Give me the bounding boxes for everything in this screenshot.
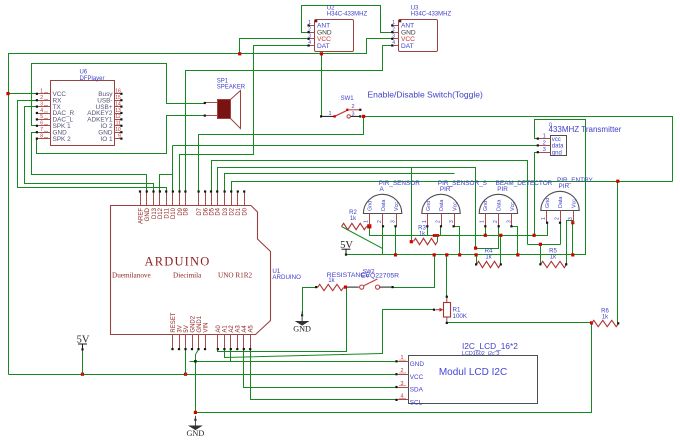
wire D5 to PIR_ENTRY data column bbox=[212, 161, 528, 245]
svg-text:1k: 1k bbox=[550, 254, 557, 260]
RF transmitter 433MHZ bbox=[538, 122, 622, 156]
svg-text:A4: A4 bbox=[242, 325, 248, 333]
PIR_SENSOR A Vcc endpoint bbox=[394, 225, 396, 227]
wire RESISTANCE left lead to GND bbox=[303, 288, 317, 316]
label R3 bbox=[418, 226, 426, 238]
resistor R6 1k bbox=[592, 320, 619, 326]
U6 left pin 4 endpoint bbox=[36, 112, 38, 114]
wire PIR 5V rail bbox=[347, 120, 586, 255]
svg-text:D0: D0 bbox=[243, 207, 249, 215]
svg-text:A0: A0 bbox=[216, 325, 222, 333]
microcontroller U1 ARDUINO bbox=[111, 192, 302, 350]
SP1 pin + endpoint bbox=[204, 102, 206, 104]
supply 5V symbol (PIR rail) bbox=[340, 240, 353, 256]
wire R2 right lead bbox=[367, 226, 370, 228]
svg-text:1: 1 bbox=[541, 217, 547, 220]
svg-text:PIR˜: PIR˜ bbox=[440, 186, 454, 193]
wire U2.VCC riser from 5V bus bbox=[240, 39, 309, 54]
svg-text:Gnd: Gnd bbox=[483, 201, 489, 211]
svg-text:PIR: PIR bbox=[497, 186, 508, 193]
junction GND1 on LCD GND line bbox=[194, 360, 197, 363]
svg-text:DFPlayer: DFPlayer bbox=[80, 76, 105, 82]
svg-text:D3: D3 bbox=[223, 207, 229, 215]
svg-text:2: 2 bbox=[377, 220, 383, 223]
wire U6.TX to D13 bbox=[25, 107, 154, 192]
R5 right endpoint bbox=[565, 263, 567, 265]
Arduino top pin AREF endpoint bbox=[139, 190, 141, 192]
junction BEAM_DETECTOR vcc on 5V rail bbox=[516, 253, 519, 256]
svg-text:GND: GND bbox=[293, 325, 311, 334]
Arduino bottom pin A2 endpoint bbox=[230, 348, 232, 350]
Arduino top pin D12 endpoint bbox=[159, 190, 161, 192]
svg-text:D4: D4 bbox=[216, 207, 222, 215]
LCD pin 3 endpoint bbox=[395, 386, 397, 388]
svg-text:GND2: GND2 bbox=[190, 315, 196, 332]
svg-text:Vcc: Vcc bbox=[510, 202, 516, 211]
junction Arduino 5V pin on bottom rail bbox=[184, 373, 187, 376]
BEAM_DETECTOR Gnd endpoint bbox=[484, 225, 486, 227]
potentiometer R1 100K bbox=[436, 297, 468, 323]
U6 left pin 1 endpoint bbox=[36, 93, 38, 95]
junction PIR_SENSOR_S vcc on 5V rail bbox=[458, 253, 461, 256]
resistor R5 1k bbox=[541, 261, 567, 267]
junction PIR_ENTRY vcc pin bbox=[571, 221, 574, 224]
junction PIR_SENSOR_A gnd / R2 bbox=[367, 224, 371, 228]
PIR_ENTRY Data endpoint bbox=[559, 222, 561, 224]
svg-text:U6: U6 bbox=[80, 70, 88, 76]
wire SW1 pin1 riser from 5V bus bbox=[321, 54, 323, 117]
R5 left endpoint bbox=[539, 263, 541, 265]
wire right-side drop to R6 bbox=[617, 182, 619, 324]
svg-text:Gnd: Gnd bbox=[545, 198, 551, 208]
Arduino top pin D2 endpoint bbox=[230, 190, 232, 192]
U2 pin 2 endpoint bbox=[308, 31, 310, 33]
wire D10 drop bbox=[172, 146, 174, 192]
junction R4 left on 5V rail bbox=[475, 253, 478, 256]
svg-text:3: 3 bbox=[352, 111, 355, 117]
label R6 bbox=[601, 309, 609, 321]
U6 left pin 6 endpoint bbox=[36, 125, 38, 127]
svg-text:ARDUINO: ARDUINO bbox=[272, 274, 301, 281]
speaker SP1 bbox=[205, 78, 246, 128]
U6 right pin 13 endpoint bbox=[120, 112, 122, 114]
junction BEAM_DETECTOR gnd on rail bbox=[484, 234, 487, 237]
wire D12 jog from D10 drop bbox=[160, 175, 173, 192]
wire PIR_SENSOR_A data drop bbox=[382, 227, 384, 249]
svg-text:1k: 1k bbox=[485, 254, 492, 260]
wire 5V bus top from U6.VCC riser to U3 area bbox=[9, 39, 393, 375]
PIR sensor PIR_SENSOR_S bbox=[422, 180, 487, 226]
label R4 bbox=[485, 249, 493, 261]
SW1 pin2 endpoint bbox=[359, 109, 361, 111]
junction D2 run at R6 drop bbox=[616, 180, 619, 183]
svg-text:16: 16 bbox=[115, 89, 121, 95]
svg-text:13: 13 bbox=[115, 108, 121, 114]
svg-text:1k: 1k bbox=[419, 231, 426, 237]
SW1 pin1 endpoint bbox=[320, 115, 322, 117]
junction R3 left bbox=[410, 240, 413, 243]
wire U6.SPK1 to speaker top bbox=[32, 64, 205, 126]
Arduino bottom pin A5 endpoint bbox=[249, 348, 251, 350]
PIR sensor PIR_SENSOR A bbox=[363, 180, 420, 226]
svg-text:Vcc: Vcc bbox=[572, 199, 578, 208]
svg-text:2: 2 bbox=[352, 104, 355, 110]
U3 pin 2 endpoint bbox=[391, 31, 393, 33]
U6 right pin 16 endpoint bbox=[120, 93, 122, 95]
wire PIR_ENTRY data drop bbox=[560, 223, 562, 245]
wire BEAM_DETECTOR vcc jog bbox=[512, 227, 518, 255]
svg-text:Duemilanove: Duemilanove bbox=[112, 272, 151, 280]
svg-text:SCL: SCL bbox=[410, 400, 423, 407]
wire R4 left riser bbox=[476, 255, 478, 265]
svg-text:ARDUINO: ARDUINO bbox=[144, 254, 210, 268]
svg-text:A3: A3 bbox=[236, 325, 242, 333]
junction R1 feed on 5V rail bbox=[445, 253, 448, 256]
junction SW2 loop on 5V rail bbox=[433, 253, 436, 256]
Arduino bottom pin GND1 endpoint bbox=[197, 348, 199, 350]
svg-text:H34C-433MHZ: H34C-433MHZ bbox=[327, 11, 368, 17]
svg-text:433MHZ Transmitter: 433MHZ Transmitter bbox=[549, 125, 622, 134]
wire R5 right riser to PIR_ENTRY vcc bbox=[567, 221, 573, 265]
svg-text:6: 6 bbox=[40, 121, 43, 127]
U6 left pin 2 endpoint bbox=[36, 99, 38, 101]
svg-text:vcc: vcc bbox=[552, 137, 561, 143]
svg-text:5: 5 bbox=[40, 114, 43, 120]
resistor R4 1k bbox=[477, 261, 501, 267]
svg-text:3V: 3V bbox=[177, 325, 183, 332]
Arduino top pin D11 endpoint bbox=[165, 190, 167, 192]
svg-text:1k: 1k bbox=[328, 278, 335, 284]
U6 right pin 12 endpoint bbox=[120, 118, 122, 120]
resistor RESISTANCE 1k bbox=[318, 284, 344, 290]
Arduino top pin D8 endpoint bbox=[184, 190, 186, 192]
svg-text:1: 1 bbox=[329, 111, 332, 117]
svg-text:PIR_SENSOR: PIR_SENSOR bbox=[379, 180, 421, 187]
svg-text:1: 1 bbox=[401, 355, 404, 361]
svg-text:2: 2 bbox=[401, 368, 404, 374]
svg-text:1k: 1k bbox=[350, 216, 357, 222]
svg-text:2: 2 bbox=[543, 140, 546, 146]
svg-text:Enable/Disable Switch(Toggle): Enable/Disable Switch(Toggle) bbox=[368, 90, 483, 100]
Arduino top pin D4 endpoint bbox=[216, 190, 218, 192]
svg-text:I2C_LCD_16*2: I2C_LCD_16*2 bbox=[462, 341, 518, 351]
wire D2 long run to right side bbox=[232, 182, 673, 192]
RF module U2 H34C-433MHZ bbox=[308, 5, 367, 51]
Arduino top pin GND endpoint bbox=[146, 190, 148, 192]
Arduino bottom pin A1 endpoint bbox=[223, 348, 225, 350]
SW2 right endpoint bbox=[392, 286, 394, 288]
svg-text:100K: 100K bbox=[453, 313, 468, 320]
wire D9 link bbox=[180, 154, 254, 156]
wire Arduino 5V pin drop bbox=[185, 350, 187, 375]
svg-text:2: 2 bbox=[555, 217, 561, 220]
Arduino top pin D10 endpoint bbox=[172, 190, 174, 192]
svg-text:VIN: VIN bbox=[203, 323, 209, 333]
U3 pin 3 endpoint bbox=[391, 38, 393, 40]
BEAM_DETECTOR Data endpoint bbox=[498, 225, 500, 227]
svg-text:Vcc: Vcc bbox=[394, 202, 400, 211]
svg-text:Gnd: Gnd bbox=[367, 201, 373, 211]
U6 left pin 3 endpoint bbox=[36, 106, 38, 108]
wire GND1 to bottom gnd run bbox=[196, 350, 199, 413]
svg-text:UNO R1R2: UNO R1R2 bbox=[218, 272, 253, 280]
wire R3 left riser from D4 column bbox=[411, 168, 413, 242]
R1 wiper endpoint bbox=[433, 309, 435, 311]
svg-text:7: 7 bbox=[40, 127, 43, 133]
switch SW2 EVQ22705R bbox=[347, 269, 399, 289]
svg-text:DAT: DAT bbox=[401, 43, 414, 50]
Arduino top pin D9 endpoint bbox=[178, 190, 180, 192]
wire U6.RX to D11 bbox=[18, 101, 167, 192]
junction D4 data corner bbox=[474, 247, 477, 250]
svg-text:D12: D12 bbox=[158, 207, 164, 219]
svg-text:DAT: DAT bbox=[317, 43, 330, 50]
Arduino bottom pin RESET endpoint bbox=[171, 348, 173, 350]
svg-text:data: data bbox=[552, 144, 564, 150]
svg-text:EVQ22705R: EVQ22705R bbox=[361, 272, 399, 279]
ground GND symbol (bottom) bbox=[187, 416, 205, 438]
svg-text:8: 8 bbox=[40, 133, 43, 139]
junction U6.VCC on 5V riser bbox=[6, 92, 9, 95]
U6 right pin 10 endpoint bbox=[120, 131, 122, 133]
wire LCD GND line bbox=[190, 361, 397, 363]
BEAM_DETECTOR Vcc endpoint bbox=[510, 225, 512, 227]
svg-text:GND1: GND1 bbox=[197, 315, 203, 332]
LCD pin 1 endpoint bbox=[395, 360, 397, 362]
svg-text:SW1: SW1 bbox=[341, 96, 355, 102]
U6 left pin 7 endpoint bbox=[36, 131, 38, 133]
svg-text:A2: A2 bbox=[229, 325, 235, 333]
svg-text:D10: D10 bbox=[171, 207, 177, 219]
wire PIR_SENSOR_S data drop to rail bbox=[440, 227, 442, 236]
junction transmitter gnd on rail bbox=[533, 234, 536, 237]
U6 left pin 8 endpoint bbox=[36, 138, 38, 140]
svg-text:D1: D1 bbox=[236, 207, 242, 215]
svg-text:4: 4 bbox=[401, 394, 404, 400]
svg-text:D8: D8 bbox=[184, 207, 190, 215]
SW1 pin3 endpoint bbox=[359, 115, 361, 117]
SP1 pin - endpoint bbox=[204, 115, 206, 117]
svg-text:PIR: PIR bbox=[559, 183, 570, 190]
svg-text:12: 12 bbox=[115, 114, 121, 120]
PIR sensor BEAM_DETECTOR bbox=[479, 180, 552, 226]
label R2 bbox=[349, 210, 357, 222]
svg-text:3: 3 bbox=[543, 147, 546, 153]
svg-text:2: 2 bbox=[493, 220, 499, 223]
wire U6.SPK2 to speaker bottom bbox=[37, 116, 205, 154]
R6 right endpoint bbox=[617, 322, 619, 324]
Arduino bottom pin A0 endpoint bbox=[217, 348, 219, 350]
resistor R2 1k bbox=[342, 223, 367, 229]
svg-text:SPK 2: SPK 2 bbox=[53, 136, 72, 143]
svg-text:gnd: gnd bbox=[552, 150, 562, 156]
RF module U3 H34C-433MHZ bbox=[392, 5, 451, 51]
U6 right pin 15 endpoint bbox=[120, 99, 122, 101]
svg-text:D11: D11 bbox=[165, 207, 171, 218]
wire A5 to LCD SCL bbox=[251, 350, 397, 400]
wire A4 to LCD SDA bbox=[244, 350, 397, 388]
junction R1 bottom / R6 left bbox=[590, 321, 593, 324]
wire PIR_SENSOR_S gnd drop bbox=[427, 227, 429, 236]
wire bottom gnd run to R6 drop bbox=[196, 323, 592, 413]
wire SW2 output loop to 5V rail bbox=[393, 255, 435, 288]
wire D3 dangling run bbox=[225, 174, 455, 192]
svg-text:2: 2 bbox=[40, 95, 43, 101]
U2 pin 4 endpoint bbox=[308, 44, 310, 46]
wire R3 right end riser bbox=[437, 236, 439, 242]
LCD pin 4 endpoint bbox=[395, 399, 397, 401]
U3 pin 1 endpoint bbox=[391, 24, 393, 26]
transmitter gnd endpoint bbox=[537, 151, 539, 153]
svg-text:A: A bbox=[380, 186, 385, 193]
svg-text:A1: A1 bbox=[223, 325, 229, 333]
PIR_ENTRY Gnd endpoint bbox=[546, 222, 548, 224]
svg-text:3: 3 bbox=[506, 220, 512, 223]
U2 pin 3 endpoint bbox=[308, 38, 310, 40]
Arduino top pin D3 endpoint bbox=[224, 190, 226, 192]
svg-text:1: 1 bbox=[422, 220, 428, 223]
svg-text:SP1: SP1 bbox=[217, 78, 229, 84]
wire SW1 pin3 long run to right edge bbox=[364, 117, 673, 182]
transmitter data endpoint bbox=[537, 144, 539, 146]
svg-text:GND: GND bbox=[410, 361, 425, 368]
svg-text:3: 3 bbox=[401, 381, 404, 387]
wire BEAM_DETECTOR gnd drop bbox=[485, 227, 487, 236]
svg-text:1: 1 bbox=[480, 220, 486, 223]
junction SW1 riser on bus bbox=[320, 52, 323, 55]
wire R1 bottom run to R6 bbox=[447, 322, 592, 324]
LCD pin 2 endpoint bbox=[395, 373, 397, 375]
svg-text:Data: Data bbox=[381, 200, 387, 211]
RESISTANCE left endpoint bbox=[315, 286, 317, 288]
Arduino top pin D5 endpoint bbox=[210, 190, 212, 192]
svg-text:D13: D13 bbox=[152, 207, 158, 219]
svg-text:3: 3 bbox=[391, 220, 397, 223]
wire PIR_ENTRY vcc drop bbox=[572, 223, 574, 255]
wire U6.VCC tap bbox=[9, 93, 37, 95]
svg-text:4: 4 bbox=[40, 108, 43, 114]
label Enable/Disable Switch bbox=[368, 90, 483, 100]
R1 top endpoint bbox=[446, 296, 448, 298]
wire PIR_SENSOR_A vcc drop bbox=[395, 227, 397, 255]
svg-text:Gnd: Gnd bbox=[426, 201, 432, 211]
junction RESISTANCE / SW2 / A0 bbox=[344, 286, 347, 289]
svg-text:3: 3 bbox=[449, 220, 455, 223]
wire PIR_ENTRY data link bbox=[528, 244, 561, 246]
Arduino top pin D1 endpoint bbox=[237, 190, 239, 192]
svg-text:D7: D7 bbox=[197, 207, 203, 215]
wire D4 to BEAM_DETECTOR data bbox=[218, 168, 499, 249]
transmitter vcc endpoint bbox=[537, 138, 539, 140]
Arduino top pin D7 endpoint bbox=[198, 190, 200, 192]
PIR_SENSOR_S Gnd endpoint bbox=[426, 225, 428, 227]
svg-text:SDA: SDA bbox=[410, 387, 424, 394]
wire 5V rail bottom to LCD VCC bbox=[9, 374, 397, 376]
wire 5V symbol top drop bbox=[82, 350, 84, 375]
junction R4 right on gnd rail bbox=[499, 234, 502, 237]
junction GND symbol on bottom gnd run bbox=[194, 411, 197, 414]
switch SW1 toggle bbox=[321, 96, 360, 118]
svg-text:Modul LCD I2C: Modul LCD I2C bbox=[439, 367, 507, 378]
wire R1 wiper to A1 slant bbox=[225, 310, 435, 358]
U3 pin 4 endpoint bbox=[391, 44, 393, 46]
svg-text:Data: Data bbox=[558, 197, 564, 208]
supply 5V symbol (left bottom) bbox=[77, 335, 90, 351]
Arduino bottom pin A4 endpoint bbox=[243, 348, 245, 350]
wire 5V diagonal from R2 left end bbox=[342, 227, 383, 255]
svg-text:IO 1: IO 1 bbox=[100, 136, 113, 143]
Arduino bottom pin 5V endpoint bbox=[184, 348, 186, 350]
wire SW2 junction down to A0 bbox=[218, 288, 347, 352]
U6 right pin 9 endpoint bbox=[120, 138, 122, 140]
junction SW1 pin3 bbox=[362, 115, 365, 118]
Arduino top pin D13 endpoint bbox=[152, 190, 154, 192]
wire SW1 pin3 to D7 bbox=[199, 117, 364, 192]
junction PIR_SENSOR_A vcc on 5V rail bbox=[394, 253, 397, 256]
wire R5 left riser bbox=[540, 245, 542, 265]
svg-text:11: 11 bbox=[116, 121, 121, 127]
U6 left pin 5 endpoint bbox=[36, 118, 38, 120]
junction R5 left on data link bbox=[539, 243, 542, 246]
junction U2.VCC riser on bus bbox=[238, 52, 241, 55]
svg-text:3: 3 bbox=[40, 101, 43, 107]
svg-text:10: 10 bbox=[115, 127, 121, 133]
wire PIR ground rail bbox=[370, 223, 548, 236]
wire U2.GND to U3.GND top loop bbox=[302, 6, 393, 33]
svg-text:RESET: RESET bbox=[171, 312, 177, 332]
Arduino top pin D6 endpoint bbox=[204, 190, 206, 192]
svg-text:Data: Data bbox=[497, 200, 503, 211]
svg-text:1: 1 bbox=[40, 89, 43, 95]
svg-text:1: 1 bbox=[364, 220, 370, 223]
svg-text:AREF: AREF bbox=[138, 208, 144, 224]
svg-text:Diecimila: Diecimila bbox=[173, 272, 202, 280]
wire U6.GND to Arduino GND bbox=[32, 133, 147, 192]
Arduino bottom pin 3V endpoint bbox=[178, 348, 180, 350]
R4 right endpoint bbox=[500, 263, 502, 265]
svg-text:D2: D2 bbox=[230, 207, 236, 215]
label R5 bbox=[549, 249, 557, 261]
svg-text:VCC: VCC bbox=[410, 374, 424, 381]
R4 left endpoint bbox=[475, 263, 477, 265]
wire U2.DAT down-left bbox=[180, 46, 309, 192]
ground GND symbol (RESISTANCE) bbox=[293, 311, 311, 333]
U6 right pin 11 endpoint bbox=[120, 125, 122, 127]
svg-text:GND: GND bbox=[145, 207, 151, 221]
wire U3.DAT to Arduino D8 bbox=[186, 46, 393, 192]
resistor R3 1k bbox=[414, 238, 438, 244]
svg-text:A5: A5 bbox=[249, 325, 255, 333]
svg-text:GND: GND bbox=[187, 429, 205, 438]
U2 pin 1 endpoint bbox=[308, 24, 310, 26]
Arduino bottom pin GND2 endpoint bbox=[191, 348, 193, 350]
IC U6 DFPlayer bbox=[37, 70, 122, 146]
wire D10 / transmitter data line bbox=[173, 145, 538, 147]
svg-text:Vcc: Vcc bbox=[453, 202, 459, 211]
PIR_SENSOR_S Vcc endpoint bbox=[453, 225, 455, 227]
svg-text:SPEAKER: SPEAKER bbox=[217, 85, 246, 91]
Arduino bottom pin VIN endpoint bbox=[204, 348, 206, 350]
svg-text:Data: Data bbox=[439, 200, 445, 211]
R1 bottom endpoint bbox=[446, 322, 448, 324]
module LCD I2C 16x2 bbox=[397, 341, 538, 406]
PIR_SENSOR_S Data endpoint bbox=[440, 225, 442, 227]
svg-text:2: 2 bbox=[436, 220, 442, 223]
PIR_SENSOR A Data endpoint bbox=[382, 225, 384, 227]
junction bar PIR_SENSOR_S data / R3 on rail bbox=[433, 234, 439, 237]
Arduino top pin D0 endpoint bbox=[243, 190, 245, 192]
wire R1 top feed bbox=[446, 255, 448, 297]
